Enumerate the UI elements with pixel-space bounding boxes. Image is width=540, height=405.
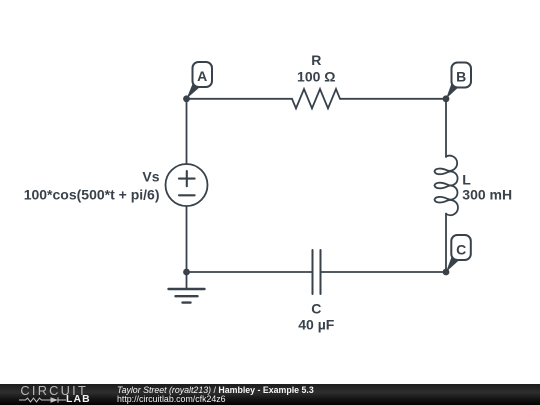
svg-text:40 µF: 40 µF	[298, 317, 335, 333]
wire capacitor to ground junction	[187, 271, 313, 273]
svg-text:100*cos(500*t + pi/6): 100*cos(500*t + pi/6)	[24, 187, 160, 203]
node A flag pointer	[187, 84, 201, 99]
junction dot node A	[183, 95, 190, 102]
node B flag pointer	[446, 84, 459, 99]
wire resistor to node B	[340, 98, 446, 100]
node A flag box	[193, 62, 213, 87]
ground bar 2	[176, 295, 198, 297]
footer url line	[117, 394, 226, 404]
wire source top to node A	[186, 99, 188, 164]
junction dot ground	[183, 269, 190, 276]
node B flag box	[452, 63, 472, 88]
ground stub	[186, 272, 188, 289]
wire node B down to inductor	[445, 99, 447, 157]
node C flag box	[451, 235, 471, 260]
junction dot node B	[443, 95, 450, 102]
svg-text:Vs: Vs	[142, 169, 159, 185]
svg-text:L: L	[462, 172, 471, 188]
CircuitLab logo LAB text	[66, 394, 91, 405]
voltage source plus sign	[179, 171, 195, 186]
ground bar 1	[169, 288, 205, 290]
svg-text:100 Ω: 100 Ω	[297, 68, 335, 84]
ground bar 3	[183, 301, 191, 303]
CircuitLab logo CIRCUIT text	[20, 383, 88, 398]
wire ground junction up to source bottom	[186, 206, 188, 272]
wire node A to resistor	[187, 98, 293, 100]
voltage source minus sign	[179, 194, 195, 196]
CircuitLab logo resistor-diode glyph	[19, 395, 69, 405]
footer title line	[117, 385, 314, 395]
svg-text:C: C	[456, 241, 466, 257]
wire inductor to node C	[445, 214, 447, 273]
svg-text:B: B	[456, 68, 466, 84]
svg-text:300 mH: 300 mH	[462, 187, 512, 203]
capacitor C left plate	[312, 250, 314, 294]
svg-text:A: A	[197, 68, 207, 84]
node C flag pointer	[446, 257, 459, 272]
footer bar	[0, 384, 540, 405]
junction dot node C	[443, 269, 450, 276]
wire node C to capacitor right plate	[321, 271, 447, 273]
inductor L coil	[435, 156, 458, 216]
voltage source Vs circle	[166, 164, 208, 206]
svg-text:C: C	[311, 300, 321, 316]
capacitor C right plate	[320, 250, 322, 294]
resistor R	[292, 89, 340, 108]
svg-text:R: R	[311, 52, 321, 68]
